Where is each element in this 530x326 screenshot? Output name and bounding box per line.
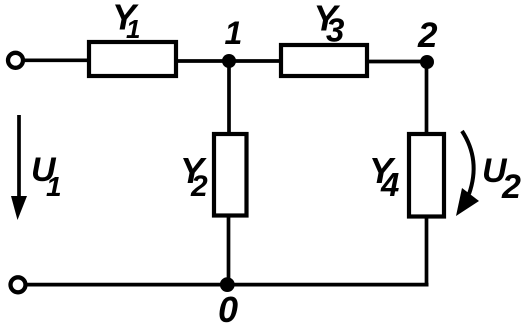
label Y1: [112, 0, 140, 44]
label U1: [31, 151, 62, 202]
wire: node 1 down to Y2: [227, 61, 231, 136]
svg-text:1: 1: [46, 171, 62, 202]
wire: node 1 to Y3: [229, 59, 282, 63]
label Y3: [314, 0, 345, 49]
svg-text:1: 1: [225, 15, 243, 51]
svg-text:2: 2: [501, 168, 521, 206]
admittance Y4 (shunt box): [409, 134, 444, 217]
wire: bottom rail: [28, 283, 429, 287]
wire: Y4 down to bottom rail: [425, 217, 429, 286]
wire: Y1 to node 1: [176, 59, 229, 63]
label Y2: [180, 150, 208, 203]
admittance Y2 (shunt box): [214, 134, 247, 216]
arrow: U1 voltage (downward): [11, 115, 27, 220]
label U2: [482, 152, 521, 206]
node 0 (junction dot): [220, 277, 235, 292]
svg-text:4: 4: [380, 166, 399, 203]
wire: Y2 down to node 0: [227, 216, 231, 285]
terminal: input bottom-left: [11, 277, 26, 292]
admittance Y1 (series box): [89, 42, 176, 76]
node 1 (junction dot): [222, 54, 236, 68]
svg-text:1: 1: [126, 14, 140, 44]
svg-text:0: 0: [218, 289, 238, 326]
wire: input terminal to Y1: [24, 58, 90, 62]
terminal: input top-left: [8, 53, 23, 68]
wire: node 2 down to Y4: [425, 62, 429, 136]
svg-text:2: 2: [190, 170, 208, 203]
svg-text:2: 2: [417, 16, 438, 55]
node 2 (junction dot): [420, 55, 434, 69]
wire: Y3 to node 2: [367, 60, 427, 64]
label Y4: [369, 150, 399, 203]
arrow: U2 voltage (curved): [456, 131, 479, 216]
admittance Y3 (series box): [281, 45, 367, 76]
svg-text:3: 3: [326, 12, 344, 49]
